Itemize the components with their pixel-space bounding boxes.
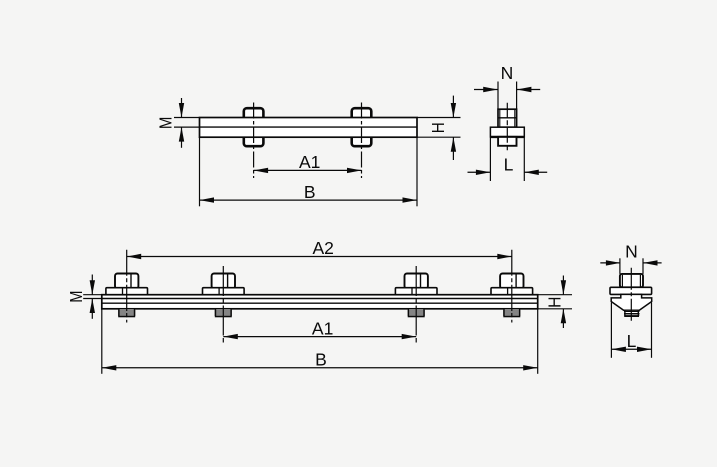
side view nut rib lines (lower) [624,311,639,313]
svg-text:B: B [304,182,316,202]
side view bolt head (lower) [620,274,643,287]
side view center line (upper) [506,103,508,152]
dimension H extension lines (upper) [417,117,461,119]
lower bolt 4 nut rib lines [503,310,520,312]
svg-text:L: L [504,154,514,174]
bolt 1 head (upper view) [244,108,264,120]
bolt 2 nut (upper view) [352,134,372,146]
dimension A1 line (lower) [223,336,416,338]
lower bolt 2 nut [216,309,232,317]
svg-text:H: H [428,122,448,133]
side view bolt head washer line (upper) [498,117,517,119]
svg-text:A2: A2 [312,238,333,258]
lower bolt 3 washer [395,288,437,296]
dimension A1 line (upper) [254,169,362,171]
dimension H extension lines (lower) [538,294,572,296]
dimension M extension lines (lower) [83,294,102,296]
side view bolt head facet lines (upper) [499,110,501,127]
side view N extension lines (lower) [619,258,621,274]
lower bolt 1 washer facet line [122,288,124,295]
bolt 1 center line (upper) [253,103,255,179]
dimension H arrows (lower) [562,276,564,295]
lower bolt 4 washer [491,288,533,296]
lower bolt 2 nut rib lines [215,310,232,312]
lower bolt 4 head [500,274,523,289]
lower bolt 3 nut [408,309,424,317]
bar joint line 1 (lower) [102,298,538,300]
side view clamp body (lower) [611,294,652,310]
bolt 1 nut (upper view) [244,134,264,146]
bar (upper 2-bolt connector body) [200,118,418,138]
side view bar cross-section (upper) [490,127,524,137]
dimension B line (lower) [102,367,538,369]
lower bolt 1 center line [126,250,128,323]
side view dimension N (lower) [600,262,620,264]
dimension H arrows (upper) [452,96,454,118]
dimension B extension lines (lower) [101,309,103,374]
lower bolt 4 nut [504,309,520,317]
lower bolt 3 nut rib lines [408,310,425,312]
bolt 2 center line (upper) [361,103,363,179]
lower bolt 1 head facet line [130,275,132,288]
bolt 2 head (upper view) [352,108,372,120]
side view bolt head (upper) [498,109,517,127]
lower bolt 3 center line [415,266,417,344]
svg-text:A1: A1 [299,152,320,172]
dimension B line (upper) [200,199,418,201]
bar mid joint line (upper) [200,126,418,128]
side view dimension L (lower) [611,348,651,350]
svg-text:N: N [501,63,514,83]
svg-text:M: M [66,291,86,303]
dimension A2 line (lower) [127,256,512,258]
lower bolt 3 head [405,274,428,289]
svg-text:M: M [155,117,175,129]
lower bolt 4 washer facet line [507,288,509,295]
side view L extension lines (upper) [489,138,491,182]
svg-text:A1: A1 [312,318,333,338]
dimension B extension lines (upper) [199,137,201,206]
lower bolt 1 head [115,274,138,289]
lower bolt 2 head [212,274,235,289]
svg-text:H: H [545,297,565,308]
svg-text:L: L [627,331,637,351]
side view center line (lower) [630,268,632,323]
side view bolt head facet lines (lower) [621,275,623,288]
lower bolt 2 head facet line [227,275,229,288]
side view nut (upper) [498,137,516,146]
dimension M arrows (upper) [181,98,183,118]
side view L extension lines (lower) [610,303,612,358]
side view dimension L (upper) [468,171,491,173]
svg-text:N: N [625,242,638,262]
lower bolt 3 head facet line [420,275,422,288]
lower bolt 1 nut [119,309,135,317]
dimension M extension lines (upper) [174,117,200,119]
svg-text:B: B [315,350,327,370]
bar (lower 4-bolt connector body) [102,295,538,309]
side view washer (lower) [610,287,652,294]
dimension M arrows (lower) [91,275,93,295]
lower bolt 4 center line [511,250,513,323]
side view nut (lower) [625,310,638,316]
lower bolt 2 center line [222,266,224,344]
bar joint line 2 (lower) [102,302,538,304]
side view N extension lines (upper) [497,82,499,109]
side view bar bottom thick edge (upper) [490,136,524,138]
side view dimension N (upper) [474,89,498,91]
lower bolt 1 washer [106,288,148,296]
lower bolt 2 washer [203,288,245,296]
lower bolt 3 washer facet line [411,288,413,295]
lower bolt 2 washer facet line [218,288,220,295]
lower bolt 1 nut rib lines [118,310,135,312]
lower bolt 4 head facet line [515,275,517,288]
